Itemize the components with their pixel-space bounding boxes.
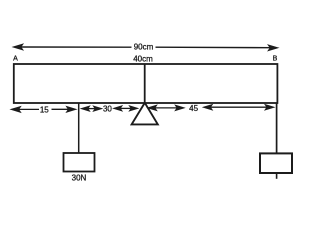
dimension 45 right double arrow [204, 105, 274, 110]
dimension line 90cm [13, 44, 278, 50]
dimension 30 right double arrow [114, 106, 138, 111]
dimension 45 left double arrow [148, 105, 184, 110]
dimension 15 left arrow [11, 107, 39, 113]
dimension 30 left double arrow [81, 106, 101, 111]
svg-text:45: 45 [189, 104, 198, 113]
svg-text:B: B [273, 55, 278, 62]
tick below right box [276, 173, 278, 179]
right string wire [276, 103, 278, 153]
svg-text:30: 30 [103, 105, 112, 114]
svg-text:90cm: 90cm [134, 43, 154, 52]
dimension 15 right arrow [52, 107, 76, 113]
right weight box [260, 153, 292, 173]
svg-text:A: A [13, 55, 18, 62]
svg-text:30N: 30N [72, 173, 87, 182]
fulcrum center line [144, 65, 146, 103]
left string wire [78, 103, 80, 153]
fulcrum triangle [132, 103, 158, 125]
svg-text:40cm: 40cm [133, 55, 153, 64]
left weight box [64, 153, 95, 172]
beam rectangle [14, 64, 278, 103]
svg-text:15: 15 [40, 105, 49, 114]
